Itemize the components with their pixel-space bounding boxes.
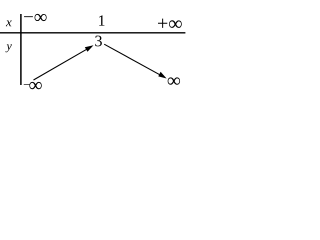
descending arrow head — [158, 72, 166, 79]
ascending arrow shaft — [34, 49, 88, 80]
value 3 — [95, 36, 102, 47]
ascending arrow head — [85, 45, 94, 52]
label x — [6, 20, 12, 26]
infinity of bottom left minus infinity — [29, 82, 41, 89]
vertical table line — [20, 14, 22, 85]
horizontal table line — [0, 32, 185, 34]
minus infinity top left — [24, 14, 47, 21]
infinity bottom right — [168, 77, 180, 84]
plus infinity top right — [158, 19, 182, 28]
label y — [6, 44, 12, 52]
descending arrow shaft — [104, 44, 161, 75]
variation table diagram — [0, 0, 206, 106]
minus sign of bottom left minus infinity — [24, 83, 30, 86]
value 1 — [99, 15, 104, 25]
